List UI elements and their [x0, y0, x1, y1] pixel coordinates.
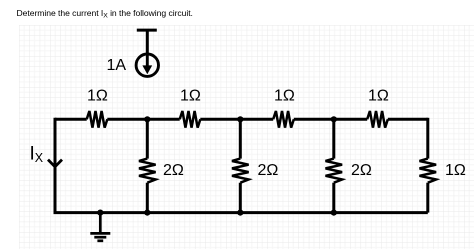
node E (bottom rail): [144, 210, 150, 216]
wire top rail segment 1: [55, 118, 87, 121]
node D (bottom, ground junction): [97, 210, 103, 216]
wire current source top lead: [146, 30, 149, 54]
wire branch x=240 lower lead: [239, 183, 242, 213]
node C (top rail): [331, 116, 337, 122]
wire branch x=147 upper lead: [146, 119, 149, 158]
wire branch x=334 upper lead: [332, 119, 335, 158]
resistor R3 1ohm (horizontal, center x=283.5): [273, 111, 294, 128]
wire top rail segment 2: [107, 118, 179, 121]
resistor R2 1ohm (horizontal, center x=190): [180, 111, 201, 128]
svg-text:2Ω: 2Ω: [258, 162, 279, 179]
svg-text:1Ω: 1Ω: [445, 162, 466, 179]
resistor R8 1ohm (vertical, x=427.8, right side): [420, 159, 437, 183]
svg-text:1Ω: 1Ω: [274, 88, 295, 105]
resistor R5 2ohm (vertical, x=147.3): [139, 159, 156, 183]
Ix arrow chevron on left wire: [48, 160, 62, 167]
wire right branch upper lead: [426, 118, 429, 159]
current source arrow shaft: [146, 55, 149, 67]
wire right branch lower lead: [426, 183, 429, 213]
node G (bottom rail): [331, 210, 337, 216]
wire left branch (Ix): [54, 118, 57, 213]
svg-text:1A: 1A: [107, 57, 127, 74]
wire branch x=334 lower lead: [332, 183, 335, 213]
resistor R1 1ohm (horizontal, center x=97): [87, 111, 108, 128]
svg-text:1Ω: 1Ω: [180, 88, 201, 105]
node B (top rail): [237, 116, 243, 122]
node F (bottom rail): [237, 210, 243, 216]
wire top rail segment 4: [294, 118, 367, 121]
wire branch x=147 lower lead: [146, 183, 149, 213]
wire branch x=240 upper lead: [239, 119, 242, 158]
node A (top, current source junction): [144, 116, 150, 122]
resistor R7 2ohm (vertical, x=333.8): [326, 159, 343, 183]
wire top rail segment 5: [388, 118, 428, 121]
svg-text:1Ω: 1Ω: [368, 88, 389, 105]
svg-text:2Ω: 2Ω: [163, 162, 184, 179]
current source arrowhead: [142, 65, 152, 74]
resistor R4 1ohm (horizontal, center x=377.5): [367, 111, 388, 128]
wire top rail segment 3: [200, 118, 273, 121]
current source I1 terminal bar: [137, 29, 157, 32]
ground symbol: [90, 213, 110, 241]
current source I1 circle: [136, 54, 158, 76]
wire bottom rail: [54, 211, 428, 214]
resistor R6 2ohm (vertical, x=240.3): [232, 159, 249, 183]
svg-text:1Ω: 1Ω: [87, 88, 108, 105]
svg-text:2Ω: 2Ω: [351, 162, 372, 179]
